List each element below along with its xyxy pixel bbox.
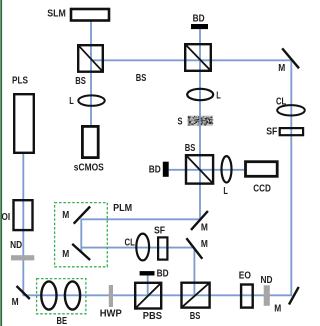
BS1 diagonal: [78, 45, 103, 71]
beam splitter BS1 cube: [78, 45, 103, 71]
svg-text:PBS: PBS: [143, 311, 162, 322]
svg-text:BD: BD: [193, 14, 205, 25]
PBS diagonal: [135, 283, 161, 309]
svg-text:BS: BS: [190, 311, 201, 322]
mirror M mid-right top: [191, 211, 208, 230]
mirror M bottom-right: [289, 287, 299, 305]
wire mirror top-right down to mirror bottom-right: [290, 59, 292, 296]
svg-text:M: M: [278, 63, 285, 74]
ND filter right gray bar: [264, 285, 270, 306]
mirror M mid-right bottom: [186, 238, 202, 259]
BE dashed box: [37, 279, 86, 314]
svg-text:S: S: [178, 116, 183, 127]
SLM box: [71, 9, 109, 21]
wire PLM vertical between mirrors: [80, 219, 82, 253]
svg-text:SLM: SLM: [47, 8, 66, 19]
svg-text:BS: BS: [75, 76, 86, 87]
wire PBS up to BD: [147, 276, 149, 296]
svg-text:M: M: [201, 239, 208, 250]
svg-text:M: M: [274, 304, 281, 315]
half wave plate HWP gray bar: [109, 285, 113, 307]
lens L top-mid ellipse: [187, 89, 213, 100]
wire bottom beam mirror to mirror: [23, 294, 292, 296]
left green border line: [0, 0, 2, 326]
beam splitter BS4 cube: [182, 283, 210, 308]
mirror M PLM bottom: [72, 244, 90, 260]
sample S speckle: [188, 115, 214, 126]
svg-text:M: M: [201, 223, 208, 234]
svg-text:M: M: [62, 210, 69, 221]
cylindrical lens CL right: [277, 105, 305, 115]
BE lens 1: [41, 281, 56, 309]
wire PLS down through OI ND to mirror: [22, 154, 24, 296]
BS2 diagonal: [185, 44, 211, 71]
beam dump BD mid bar: [163, 162, 169, 177]
spatial filter SF mid: [158, 237, 167, 259]
svg-text:CCD: CCD: [253, 184, 271, 195]
svg-text:M: M: [12, 297, 19, 308]
BS4 diagonal: [182, 283, 210, 308]
svg-text:M: M: [62, 249, 69, 260]
lens L left ellipse: [78, 95, 104, 105]
spatial filter SF right: [280, 128, 303, 135]
wire BS1 to mirror M top-right horizontal: [90, 59, 291, 61]
svg-text:BD: BD: [149, 164, 161, 175]
PLM dashed box: [55, 203, 108, 267]
mirror M bottom-left: [17, 286, 30, 299]
electro-optic modulator EO box: [241, 285, 253, 308]
svg-text:BS: BS: [136, 73, 147, 84]
wire BD top through BS2 L S BS3 down to mirror: [199, 29, 201, 220]
svg-text:BS: BS: [185, 143, 196, 154]
svg-text:L: L: [69, 96, 74, 107]
lens L mid ellipse: [222, 156, 232, 182]
BE lens 2: [65, 281, 80, 309]
svg-text:EO: EO: [239, 271, 251, 282]
svg-text:OI: OI: [2, 212, 11, 223]
mirror M PLM top: [74, 207, 90, 224]
optical isolator OI box: [14, 200, 33, 230]
beam dump BD low bar: [140, 271, 155, 275]
beam dump BD top bar: [191, 24, 208, 29]
wire PLM bottom to mirror horizontal through CL SF: [81, 247, 195, 249]
svg-text:PLM: PLM: [113, 203, 132, 214]
CCD camera: [246, 162, 278, 177]
wire mirror to PLM top horizontal: [81, 218, 200, 220]
svg-text:SF: SF: [154, 225, 165, 236]
BS3 diagonal: [186, 155, 213, 183]
svg-text:BD: BD: [157, 268, 169, 279]
ND filter left gray bar: [11, 255, 34, 260]
wire mirror down to bottom BS: [193, 248, 195, 296]
wire BD mid through BS3 and L to CCD: [169, 169, 244, 171]
svg-text:CL: CL: [125, 238, 135, 249]
svg-text:SF: SF: [266, 126, 277, 137]
svg-text:sCMOS: sCMOS: [74, 162, 104, 173]
sCMOS camera: [82, 126, 98, 157]
mirror M top-right: [282, 48, 299, 68]
svg-text:PLS: PLS: [12, 76, 28, 87]
svg-text:BE: BE: [57, 316, 68, 326]
svg-text:HWP: HWP: [100, 308, 122, 319]
svg-text:ND: ND: [261, 275, 273, 286]
svg-text:L: L: [223, 186, 228, 197]
PLS laser box: [14, 94, 34, 153]
cylindrical lens CL mid: [136, 234, 149, 261]
svg-text:L: L: [216, 91, 221, 102]
wire SLM to sCMOS vertical: [90, 22, 92, 126]
beam splitter BS2 cube: [185, 44, 211, 71]
svg-text:CL: CL: [276, 97, 286, 108]
svg-text:ND: ND: [10, 240, 22, 251]
polarizing beam splitter PBS cube: [135, 283, 161, 309]
beam splitter BS3 cube: [186, 155, 213, 183]
